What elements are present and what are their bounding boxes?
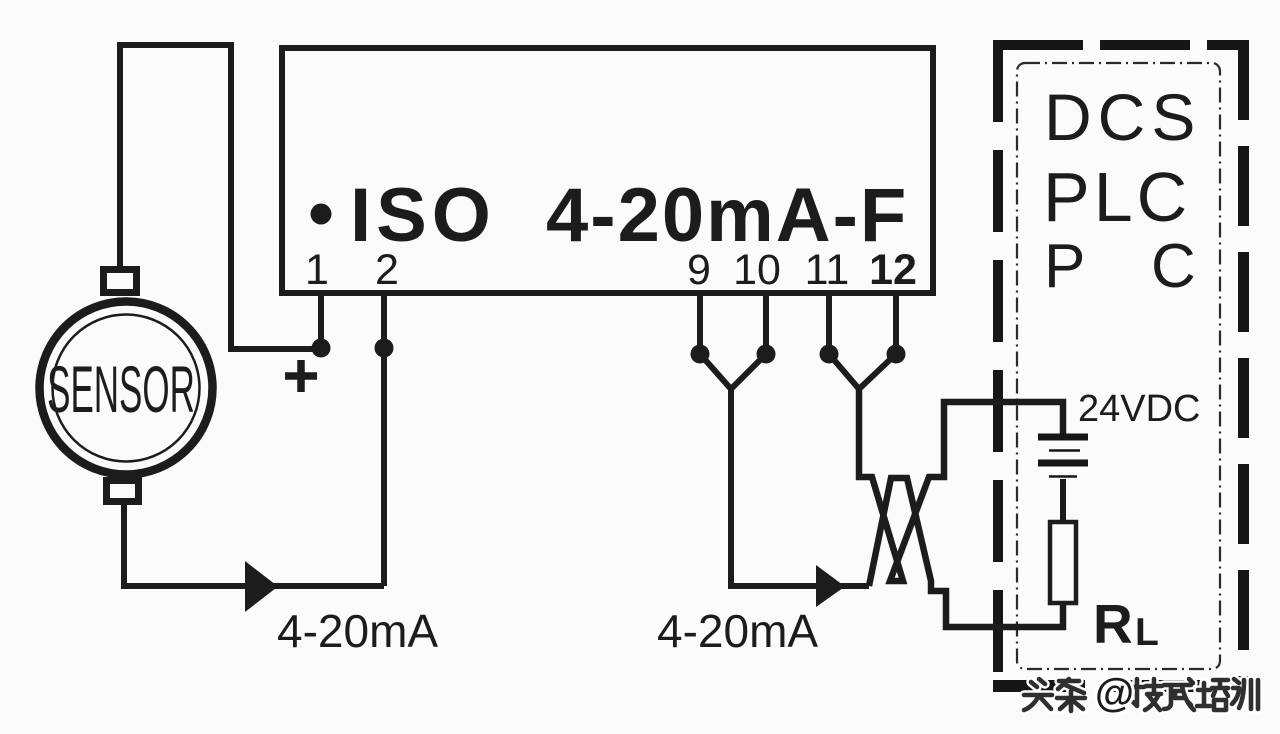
battery plate short thin lower: [1049, 475, 1077, 478]
wire output loop down: [731, 386, 869, 586]
resistor RL body: [1050, 522, 1076, 603]
arrow current direction left loop: [245, 561, 278, 612]
wire sensor top to pin 1: [120, 45, 321, 349]
wire Y junction pins 9-10: [700, 354, 766, 389]
sensor inner circle: [53, 315, 200, 462]
DCS cabinet outer dashed box: [993, 40, 1249, 692]
svg-text:11: 11: [805, 246, 850, 294]
svg-text:R: R: [1093, 593, 1133, 655]
wire Y junction pins 11-12: [829, 354, 896, 389]
transmitter box ISO 4-20mA-F: [282, 48, 933, 293]
svg-text:4-20mA-F: 4-20mA-F: [546, 173, 908, 258]
wire pin11/12 pair into DCS (top, to battery +): [859, 389, 1063, 581]
watermark 头条@技成培训: [1024, 679, 1258, 711]
svg-text:2: 2: [375, 246, 399, 294]
svg-text:SENSOR: SENSOR: [47, 353, 195, 427]
pin 2 stub and wire down: [381, 294, 387, 586]
battery plate long lower: [1038, 460, 1088, 467]
pin 1 stub: [318, 294, 324, 348]
DCS inner dash-dot box: [1017, 63, 1220, 669]
wire battery to resistor: [1060, 479, 1066, 522]
node pin 10: [757, 345, 776, 364]
pin 9 stub: [697, 296, 703, 354]
wire sensor bottom to pin 2: [124, 502, 384, 586]
svg-text:24VDC: 24VDC: [1078, 388, 1201, 430]
arrow current direction right loop: [816, 565, 845, 607]
svg-text:ISO: ISO: [350, 173, 496, 258]
pin 12 stub: [893, 296, 899, 354]
pin 10 stub: [763, 296, 769, 354]
pin 11 stub: [826, 296, 832, 354]
node pin 2: [375, 339, 394, 358]
sensor top terminal: [104, 270, 137, 293]
battery plate short thin: [1049, 449, 1080, 452]
node pin 9: [691, 345, 710, 364]
svg-text:P: P: [1044, 232, 1085, 301]
svg-text:C: C: [1151, 232, 1196, 301]
sensor bottom terminal: [107, 481, 139, 502]
battery 24VDC plate long top: [1038, 434, 1088, 441]
svg-text:4-20mA: 4-20mA: [277, 605, 438, 657]
svg-text:DCS: DCS: [1044, 80, 1201, 154]
node pin 12: [887, 345, 906, 364]
svg-text:PLC: PLC: [1043, 158, 1191, 236]
wire pin9/10 pair into DCS (bottom, from RL): [869, 478, 1063, 627]
sensor body outer circle: [40, 302, 213, 475]
svg-text:12: 12: [869, 246, 917, 294]
svg-text:10: 10: [733, 246, 781, 294]
node pin 1: [312, 339, 331, 358]
svg-text:1: 1: [305, 246, 329, 294]
svg-text:@: @: [1095, 671, 1134, 715]
plus polarity mark: [285, 360, 317, 392]
power dot inside box: [311, 204, 332, 225]
svg-text:L: L: [1135, 611, 1159, 654]
svg-text:9: 9: [687, 246, 711, 294]
svg-text:4-20mA: 4-20mA: [657, 605, 818, 657]
node pin 11: [820, 345, 839, 364]
